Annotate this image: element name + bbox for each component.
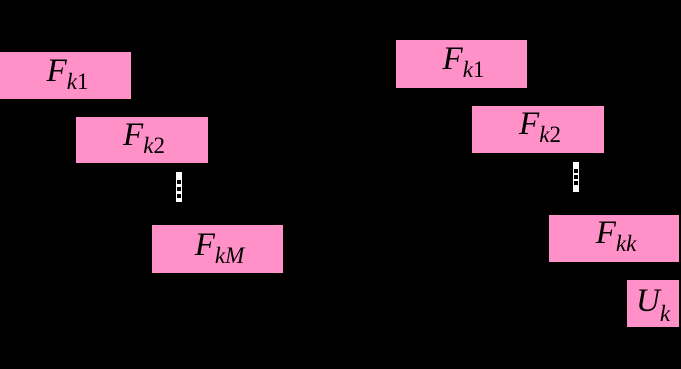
block F_kk (right group): [549, 215, 679, 262]
block F_k1 (left group): [0, 52, 131, 99]
block F_k2 (right group): [472, 106, 604, 153]
vertical ellipsis (right group): [573, 162, 579, 192]
block U_k (right group): [627, 280, 679, 327]
block F_k1 (right group): [396, 40, 527, 88]
block F_kM (left group): [152, 225, 283, 273]
block F_k2 (left group): [76, 117, 208, 163]
vertical ellipsis (left group): [176, 172, 182, 202]
